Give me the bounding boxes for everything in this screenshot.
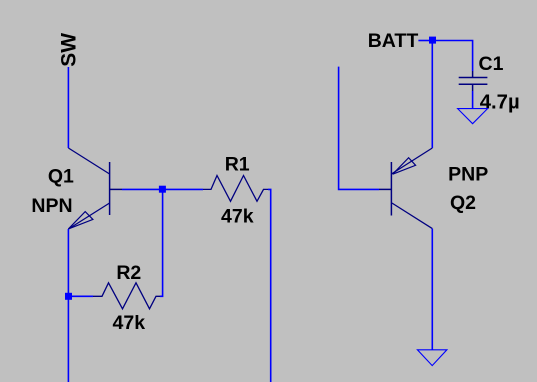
svg-text:Q1: Q1 (48, 165, 74, 187)
node BATT junction (429, 37, 436, 44)
wire SW to Q1 collector (67, 67, 69, 148)
wire Q1 base to node A (122, 188, 163, 190)
svg-text:47k: 47k (221, 205, 254, 227)
transistor Q2 (PNP) (379, 148, 432, 229)
wire BATT to C1 (435, 41, 472, 72)
wire BATT node down to Q2 emitter (431, 44, 433, 149)
wire Q2 base left and up (339, 67, 379, 190)
node A junction (159, 186, 166, 193)
wire Q1 emitter down (67, 229, 69, 382)
svg-text:BATT: BATT (368, 30, 419, 52)
svg-text:NPN: NPN (31, 195, 72, 217)
wire node B to R2 (68, 295, 93, 297)
svg-text:SW: SW (57, 33, 80, 67)
svg-text:R1: R1 (225, 153, 250, 175)
ground (under Q2) (417, 350, 447, 366)
transistor Q1 (NPN, mirrored) (68, 148, 122, 229)
wire C1 to ground (472, 91, 474, 109)
resistor R2 (93, 283, 160, 309)
wire R1 right down (268, 189, 271, 382)
wire node A to R1 (163, 188, 203, 190)
resistor R1 (203, 176, 268, 202)
wire Q2 collector down to ground (431, 229, 433, 350)
svg-text:47k: 47k (113, 312, 146, 334)
svg-text:Q2: Q2 (450, 192, 476, 214)
wire BATT label stub (418, 40, 429, 42)
wire node A down to R2 (160, 189, 163, 296)
svg-text:R2: R2 (116, 262, 141, 284)
node B junction (65, 293, 72, 300)
ground (under C1) (458, 109, 488, 124)
svg-text:PNP: PNP (448, 163, 488, 185)
capacitor C1 (459, 71, 488, 91)
svg-text:C1: C1 (479, 53, 504, 75)
